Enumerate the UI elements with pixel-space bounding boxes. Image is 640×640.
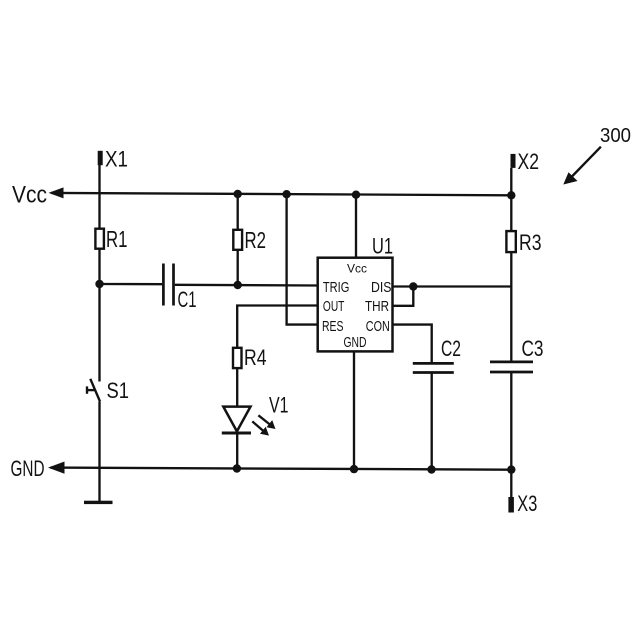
wire S1 to ground: [98, 402, 100, 503]
wire C3 to GND bus: [510, 372, 512, 470]
wire U1 Vcc pin column: [355, 195, 357, 258]
wire Vcc bus: [51, 193, 511, 195]
svg-text:R4: R4: [244, 345, 267, 370]
wire node to C1: [100, 283, 163, 286]
capacitor C3: [490, 362, 533, 372]
switch S1: [87, 379, 100, 402]
wire GND bus to X3: [510, 470, 512, 497]
svg-text:R1: R1: [106, 226, 128, 252]
junction X2 on Vcc bus: [507, 191, 515, 199]
svg-text:DIS: DIS: [371, 279, 392, 296]
wire X2 to R3: [510, 168, 512, 231]
svg-text:C3: C3: [522, 336, 544, 361]
arrow figure 300 pointer: [563, 147, 601, 185]
svg-text:R2: R2: [245, 227, 267, 253]
capacitor C1: [163, 264, 173, 306]
svg-text:RES: RES: [322, 318, 344, 335]
wire U1 GND pin column: [353, 351, 355, 469]
svg-text:CON: CON: [366, 318, 390, 335]
resistor R2: [233, 230, 242, 250]
svg-text:TRIG: TRIG: [323, 279, 350, 296]
wire R2 column: [237, 194, 239, 285]
wire C2 to GND bus: [431, 373, 433, 470]
capacitor C2: [413, 363, 454, 372]
junction node R1/C1: [95, 280, 103, 288]
resistor R1: [95, 229, 104, 249]
junction U1 GND on bus: [350, 465, 358, 473]
terminal X1: [98, 151, 103, 165]
junction R2 top on Vcc bus: [234, 190, 242, 198]
resistor R3: [506, 231, 515, 252]
junction RES top on Vcc bus: [282, 190, 290, 198]
junction node TRIG/R2/C1: [234, 281, 242, 289]
resistor R4: [233, 348, 242, 368]
wire CON to C2: [393, 325, 432, 363]
junction C2 on GND bus: [427, 465, 435, 473]
wire GND bus: [51, 468, 512, 470]
svg-text:V1: V1: [269, 393, 289, 418]
junction DIS/THR node: [409, 282, 417, 290]
junction V1 on GND bus: [233, 464, 241, 472]
terminal X3: [508, 497, 514, 513]
svg-text:X1: X1: [105, 147, 128, 172]
svg-text:THR: THR: [365, 298, 389, 315]
wire RES to Vcc bus: [287, 194, 318, 324]
svg-text:S1: S1: [107, 378, 130, 403]
svg-text:OUT: OUT: [323, 298, 345, 315]
LED V1 emission arrows: [252, 415, 275, 435]
wire C1 to TRIG: [175, 284, 318, 287]
svg-text:Vcc: Vcc: [347, 262, 367, 276]
svg-text:U1: U1: [372, 234, 393, 259]
svg-text:X2: X2: [518, 149, 540, 174]
junction U1 Vcc top on bus: [352, 191, 360, 199]
svg-text:GND: GND: [344, 334, 367, 351]
wire DIS row: [393, 285, 512, 287]
terminal X2: [511, 154, 516, 168]
ground: [84, 501, 113, 504]
svg-text:C2: C2: [441, 336, 461, 361]
LED V1: [222, 407, 251, 433]
op-amp U1 timer IC box: [318, 258, 393, 352]
net Vcc arrowhead: [49, 187, 64, 198]
wire R1 to S1: [98, 249, 100, 382]
wire THR jog: [393, 287, 414, 306]
junction C3/X3 on GND bus: [507, 465, 515, 473]
wire OUT to R4: [237, 306, 318, 348]
wire V1 to GND bus: [236, 433, 238, 469]
svg-text:X3: X3: [517, 491, 537, 516]
wire R3 to C3: [510, 252, 512, 361]
wire X1 to R1: [98, 165, 100, 229]
svg-text:300: 300: [600, 125, 631, 147]
svg-text:C1: C1: [178, 287, 197, 312]
wire R4 to V1: [236, 368, 238, 406]
svg-text:Vcc: Vcc: [12, 182, 47, 209]
net GND arrowhead: [48, 462, 65, 474]
svg-text:R3: R3: [519, 230, 542, 255]
svg-text:GND: GND: [11, 456, 45, 481]
